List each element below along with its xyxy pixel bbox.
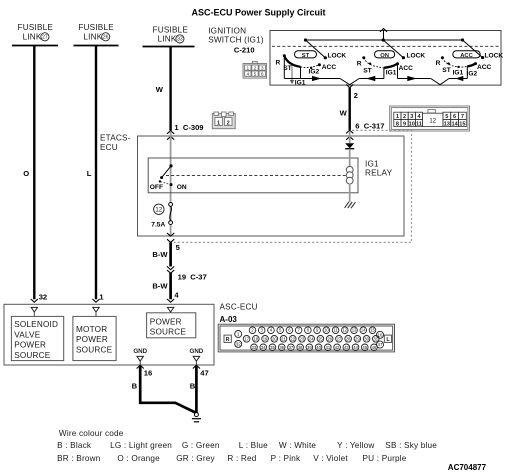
svg-text:SOURCE: SOURCE bbox=[76, 345, 113, 354]
svg-text:39: 39 bbox=[307, 345, 312, 350]
svg-text:BR : Brown: BR : Brown bbox=[57, 454, 101, 463]
svg-text:37: 37 bbox=[289, 345, 294, 350]
svg-text:3: 3 bbox=[410, 114, 413, 120]
ignition switch section 3 (ACC position) bbox=[436, 38, 504, 81]
svg-text:2: 2 bbox=[227, 120, 230, 126]
svg-text:FUSIBLE: FUSIBLE bbox=[78, 23, 114, 32]
svg-text:15: 15 bbox=[459, 121, 465, 127]
IG1 relay box bbox=[148, 158, 358, 193]
svg-text:POWER: POWER bbox=[150, 318, 182, 327]
svg-text:IG1: IG1 bbox=[453, 70, 464, 77]
svg-text:GND: GND bbox=[190, 348, 204, 355]
ignition switch section 1 (ST position) bbox=[276, 38, 347, 86]
wire: fusible link 26 to ASC-ECU pin 1 (L) bbox=[95, 46, 97, 300]
svg-text:5: 5 bbox=[445, 114, 448, 120]
svg-text:42: 42 bbox=[335, 345, 340, 350]
svg-text:ACC: ACC bbox=[399, 65, 414, 72]
connector A-03 pins 1 and 32 bbox=[235, 331, 242, 338]
dashed position line bbox=[272, 45, 499, 47]
svg-text:LINK: LINK bbox=[83, 33, 102, 42]
fusible link 33 bbox=[143, 25, 195, 46]
svg-text:B : Black: B : Black bbox=[57, 441, 92, 450]
svg-text:13: 13 bbox=[444, 121, 450, 127]
svg-text:14: 14 bbox=[451, 121, 458, 127]
connector arrow into ASC-ECU pin 4 bbox=[167, 299, 174, 302]
svg-text:ON: ON bbox=[177, 184, 187, 191]
svg-text:33: 33 bbox=[252, 345, 257, 350]
body ground symbol bbox=[194, 413, 198, 417]
connector A-03 pin layout bbox=[218, 324, 394, 352]
svg-text:Y : Yellow: Y : Yellow bbox=[337, 441, 374, 450]
svg-text:11: 11 bbox=[416, 121, 422, 127]
svg-text:6 C-317: 6 C-317 bbox=[355, 122, 384, 131]
relay actuation dashed link bbox=[166, 175, 346, 177]
svg-text:OFF: OFF bbox=[150, 184, 163, 191]
svg-text:47: 47 bbox=[200, 369, 208, 378]
svg-text:2: 2 bbox=[354, 91, 358, 100]
svg-text:1: 1 bbox=[237, 332, 240, 337]
wire: ignition switch terminal 2 to C-317 (W) bbox=[349, 88, 351, 130]
fusible link 27 bbox=[12, 23, 58, 45]
svg-text:G : Green: G : Green bbox=[182, 441, 220, 450]
svg-text:LOCK: LOCK bbox=[407, 53, 426, 60]
connector A-03 pins 16 and 47 bbox=[377, 331, 384, 338]
svg-text:L : Blue: L : Blue bbox=[239, 441, 268, 450]
svg-text:RELAY: RELAY bbox=[365, 169, 393, 178]
svg-text:12: 12 bbox=[342, 328, 347, 333]
svg-text:38: 38 bbox=[298, 345, 303, 350]
ignition switch section 2 (ON position) bbox=[357, 38, 431, 81]
svg-text:MOTOR: MOTOR bbox=[76, 325, 107, 334]
svg-text:V : Violet: V : Violet bbox=[313, 454, 348, 463]
svg-text:POWER: POWER bbox=[76, 335, 108, 344]
IG1 relay contact (OFF/ON) bbox=[150, 164, 187, 191]
connector arrow below ignition switch bbox=[346, 84, 353, 87]
svg-text:W: W bbox=[156, 85, 164, 94]
connector C-309 icon bbox=[212, 112, 235, 129]
node: ACC output terminal (V notch) bbox=[431, 79, 449, 85]
svg-text:SOLENOID: SOLENOID bbox=[14, 320, 58, 329]
svg-text:SB : Sky blue: SB : Sky blue bbox=[385, 441, 437, 450]
svg-text:13: 13 bbox=[352, 328, 357, 333]
svg-text:PU : Purple: PU : Purple bbox=[363, 454, 407, 463]
svg-text:1 C-309: 1 C-309 bbox=[174, 123, 203, 132]
svg-text:46: 46 bbox=[372, 345, 377, 350]
wire: fusible link 27 to ASC-ECU pin 32 (O) bbox=[33, 46, 35, 300]
svg-text:GND: GND bbox=[133, 348, 147, 355]
fuse 12 (7.5A) bbox=[151, 203, 172, 229]
svg-text:35: 35 bbox=[270, 345, 275, 350]
IG1 relay label bbox=[365, 159, 393, 177]
wire: pin 47 to body ground (B) bbox=[195, 366, 198, 413]
svg-text:ACC: ACC bbox=[322, 64, 337, 71]
svg-text:33: 33 bbox=[177, 37, 183, 43]
IG1 relay coil bbox=[346, 166, 353, 184]
solenoid valve power source block bbox=[11, 316, 63, 360]
svg-text:B-W: B-W bbox=[152, 250, 168, 259]
wire: coil to ground (grey) bbox=[349, 184, 351, 202]
svg-text:27: 27 bbox=[42, 35, 48, 41]
fusible link 26 bbox=[74, 23, 119, 45]
terminal arrow up (battery feed) bbox=[383, 30, 385, 40]
internal wire (grey) from C-309 through relay contacts and fuse bbox=[349, 131, 351, 143]
svg-text:LINK: LINK bbox=[23, 33, 42, 42]
svg-text:LINK: LINK bbox=[158, 35, 177, 44]
svg-text:ASC-ECU Power Supply Circuit: ASC-ECU Power Supply Circuit bbox=[192, 7, 326, 18]
svg-text:44: 44 bbox=[353, 345, 358, 350]
svg-text:4: 4 bbox=[246, 72, 249, 78]
connector A-03 pin row 33-46 bbox=[251, 344, 258, 351]
svg-text:40: 40 bbox=[316, 345, 321, 350]
svg-text:47: 47 bbox=[378, 342, 383, 347]
svg-text:IG1: IG1 bbox=[386, 69, 397, 76]
bus wire inside ignition switch bbox=[306, 39, 463, 41]
svg-text:11: 11 bbox=[333, 328, 338, 333]
svg-text:FUSIBLE: FUSIBLE bbox=[18, 23, 54, 32]
svg-text:IG1: IG1 bbox=[365, 159, 379, 168]
ASC-ECU box bbox=[4, 304, 214, 365]
svg-text:O : Orange: O : Orange bbox=[117, 454, 160, 463]
svg-text:9: 9 bbox=[403, 121, 406, 127]
svg-text:7.5A: 7.5A bbox=[151, 221, 165, 228]
svg-text:O: O bbox=[23, 169, 29, 178]
svg-text:26: 26 bbox=[103, 35, 109, 41]
svg-text:23: 23 bbox=[300, 336, 305, 341]
svg-text:1: 1 bbox=[246, 66, 249, 72]
svg-text:ST: ST bbox=[363, 67, 371, 74]
svg-text:SWITCH (IG1): SWITCH (IG1) bbox=[208, 36, 264, 45]
connector arrows ETACS pin 5 exit bbox=[167, 233, 174, 236]
wire: fusible link 33 to ETACS-ECU C-309 (W) bbox=[169, 47, 171, 131]
wire: pin 16 to body ground (B) bbox=[140, 366, 196, 413]
svg-text:19: 19 bbox=[263, 336, 268, 341]
svg-text:R: R bbox=[226, 337, 230, 343]
svg-text:12: 12 bbox=[155, 207, 163, 214]
svg-text:6: 6 bbox=[453, 114, 456, 120]
svg-text:3: 3 bbox=[261, 66, 264, 72]
svg-text:ACC: ACC bbox=[477, 64, 492, 71]
svg-text:LOCK: LOCK bbox=[485, 52, 504, 59]
chassis ground (relay coil) bbox=[345, 202, 356, 208]
svg-text:ETACS-: ETACS- bbox=[100, 134, 131, 143]
svg-text:34: 34 bbox=[261, 345, 266, 350]
connector C-317 pin grid bbox=[390, 106, 470, 131]
svg-text:SOURCE: SOURCE bbox=[150, 328, 187, 337]
svg-text:LOCK: LOCK bbox=[328, 53, 347, 60]
svg-text:18: 18 bbox=[253, 336, 258, 341]
svg-text:31: 31 bbox=[373, 336, 378, 341]
node: IG1 output terminal 2 (V notch) bbox=[340, 79, 359, 85]
ASC-ECU pin 32 terminal (hollow arrow) bbox=[31, 307, 37, 312]
connector A-03 pin row 2-15 bbox=[249, 327, 256, 334]
connector arrow out of ASC-ECU pin 47 bbox=[193, 365, 200, 368]
svg-text:IG1: IG1 bbox=[295, 79, 306, 86]
motor power source block bbox=[73, 316, 116, 360]
svg-text:Wire colour code: Wire colour code bbox=[59, 429, 124, 438]
svg-text:19 C-37: 19 C-37 bbox=[178, 272, 207, 281]
svg-text:P : Pink: P : Pink bbox=[271, 454, 301, 463]
wire: C-37 to ASC-ECU pin 4 (B-W) bbox=[169, 273, 172, 299]
svg-text:FUSIBLE: FUSIBLE bbox=[153, 25, 189, 34]
diode (relay coil clamp) bbox=[345, 143, 354, 148]
svg-text:B: B bbox=[132, 382, 138, 391]
svg-text:36: 36 bbox=[279, 345, 284, 350]
wire colour code legend bbox=[57, 429, 437, 463]
svg-text:43: 43 bbox=[344, 345, 349, 350]
svg-text:A-03: A-03 bbox=[220, 315, 238, 324]
svg-text:ASC-ECU: ASC-ECU bbox=[220, 302, 258, 311]
ignition switch label bbox=[208, 26, 264, 44]
connector arrows C-309 pin 1 entry bbox=[167, 131, 174, 134]
svg-text:6: 6 bbox=[261, 72, 264, 78]
svg-text:C-210: C-210 bbox=[234, 46, 255, 55]
svg-text:20: 20 bbox=[272, 336, 277, 341]
svg-text:24: 24 bbox=[309, 336, 314, 341]
connector arrow into ASC-ECU pin 32 bbox=[31, 299, 38, 302]
ASC-ECU pin 4 terminal (hollow arrow) bbox=[167, 307, 173, 312]
svg-text:12: 12 bbox=[429, 118, 436, 124]
svg-text:1: 1 bbox=[217, 120, 220, 126]
svg-text:7: 7 bbox=[461, 114, 464, 120]
svg-text:LG : Light green: LG : Light green bbox=[110, 441, 172, 450]
svg-text:25: 25 bbox=[318, 336, 323, 341]
power source block bbox=[147, 313, 196, 338]
svg-text:1: 1 bbox=[396, 114, 399, 120]
ETACS-ECU box bbox=[138, 136, 405, 236]
svg-text:32: 32 bbox=[236, 341, 241, 346]
svg-text:15: 15 bbox=[370, 328, 375, 333]
svg-text:ST: ST bbox=[442, 67, 450, 74]
svg-text:IG2: IG2 bbox=[309, 69, 320, 76]
ASC-ECU pin 1 terminal (hollow arrow) bbox=[93, 307, 99, 312]
svg-text:VALVE: VALVE bbox=[14, 330, 41, 339]
svg-text:R : Red: R : Red bbox=[227, 454, 256, 463]
svg-text:5: 5 bbox=[254, 72, 257, 78]
svg-text:10: 10 bbox=[409, 121, 415, 127]
svg-text:ST: ST bbox=[302, 53, 310, 59]
svg-text:32: 32 bbox=[39, 292, 47, 301]
svg-text:IG2: IG2 bbox=[467, 71, 478, 78]
svg-text:28: 28 bbox=[346, 336, 351, 341]
svg-text:2: 2 bbox=[403, 114, 406, 120]
ignition switch SW1 box bbox=[270, 31, 501, 86]
svg-text:R: R bbox=[276, 59, 281, 66]
svg-text:10: 10 bbox=[324, 328, 329, 333]
connector C-210 pin grid bbox=[243, 62, 267, 79]
svg-text:16: 16 bbox=[144, 369, 152, 378]
svg-text:AC704877: AC704877 bbox=[448, 463, 487, 472]
intermediate connector C-37 junction bbox=[167, 266, 174, 269]
connector arrow into ASC-ECU pin 1 bbox=[92, 299, 99, 302]
svg-text:GR : Grey: GR : Grey bbox=[176, 454, 215, 463]
connector arrows C-317 pin 6 entry bbox=[346, 130, 353, 133]
svg-text:B: B bbox=[190, 382, 196, 391]
svg-text:ACC: ACC bbox=[460, 53, 473, 59]
connector A-03 pin row 17-31 bbox=[243, 336, 250, 343]
svg-text:41: 41 bbox=[326, 345, 331, 350]
svg-text:POWER: POWER bbox=[14, 341, 46, 350]
svg-text:R: R bbox=[357, 60, 362, 67]
svg-text:27: 27 bbox=[337, 336, 342, 341]
svg-text:21: 21 bbox=[281, 336, 286, 341]
svg-text:ON: ON bbox=[380, 53, 389, 59]
wire: ETACS pin 5 to C-37 (B-W) bbox=[169, 242, 172, 266]
svg-text:45: 45 bbox=[362, 345, 367, 350]
svg-text:ECU: ECU bbox=[100, 143, 118, 152]
svg-text:IGNITION: IGNITION bbox=[208, 26, 246, 35]
svg-text:8: 8 bbox=[396, 121, 399, 127]
svg-text:L: L bbox=[87, 169, 92, 178]
svg-text:14: 14 bbox=[361, 328, 366, 333]
svg-text:26: 26 bbox=[327, 336, 332, 341]
svg-text:30: 30 bbox=[364, 336, 369, 341]
ETACS-ECU label bbox=[100, 134, 131, 152]
svg-text:22: 22 bbox=[290, 336, 295, 341]
dashed continuation to C-317/C-37 bbox=[174, 130, 412, 242]
connector arrow out of ASC-ECU pin 16 bbox=[137, 365, 144, 368]
svg-text:29: 29 bbox=[355, 336, 360, 341]
svg-text:2: 2 bbox=[254, 66, 257, 72]
svg-text:B-W: B-W bbox=[152, 281, 168, 290]
svg-text:R: R bbox=[436, 60, 441, 67]
svg-text:17: 17 bbox=[244, 336, 249, 341]
svg-text:W : White: W : White bbox=[279, 441, 317, 450]
wire: diode to coil (grey) bbox=[349, 149, 351, 166]
svg-text:SOURCE: SOURCE bbox=[14, 351, 51, 360]
svg-text:W: W bbox=[340, 109, 348, 118]
